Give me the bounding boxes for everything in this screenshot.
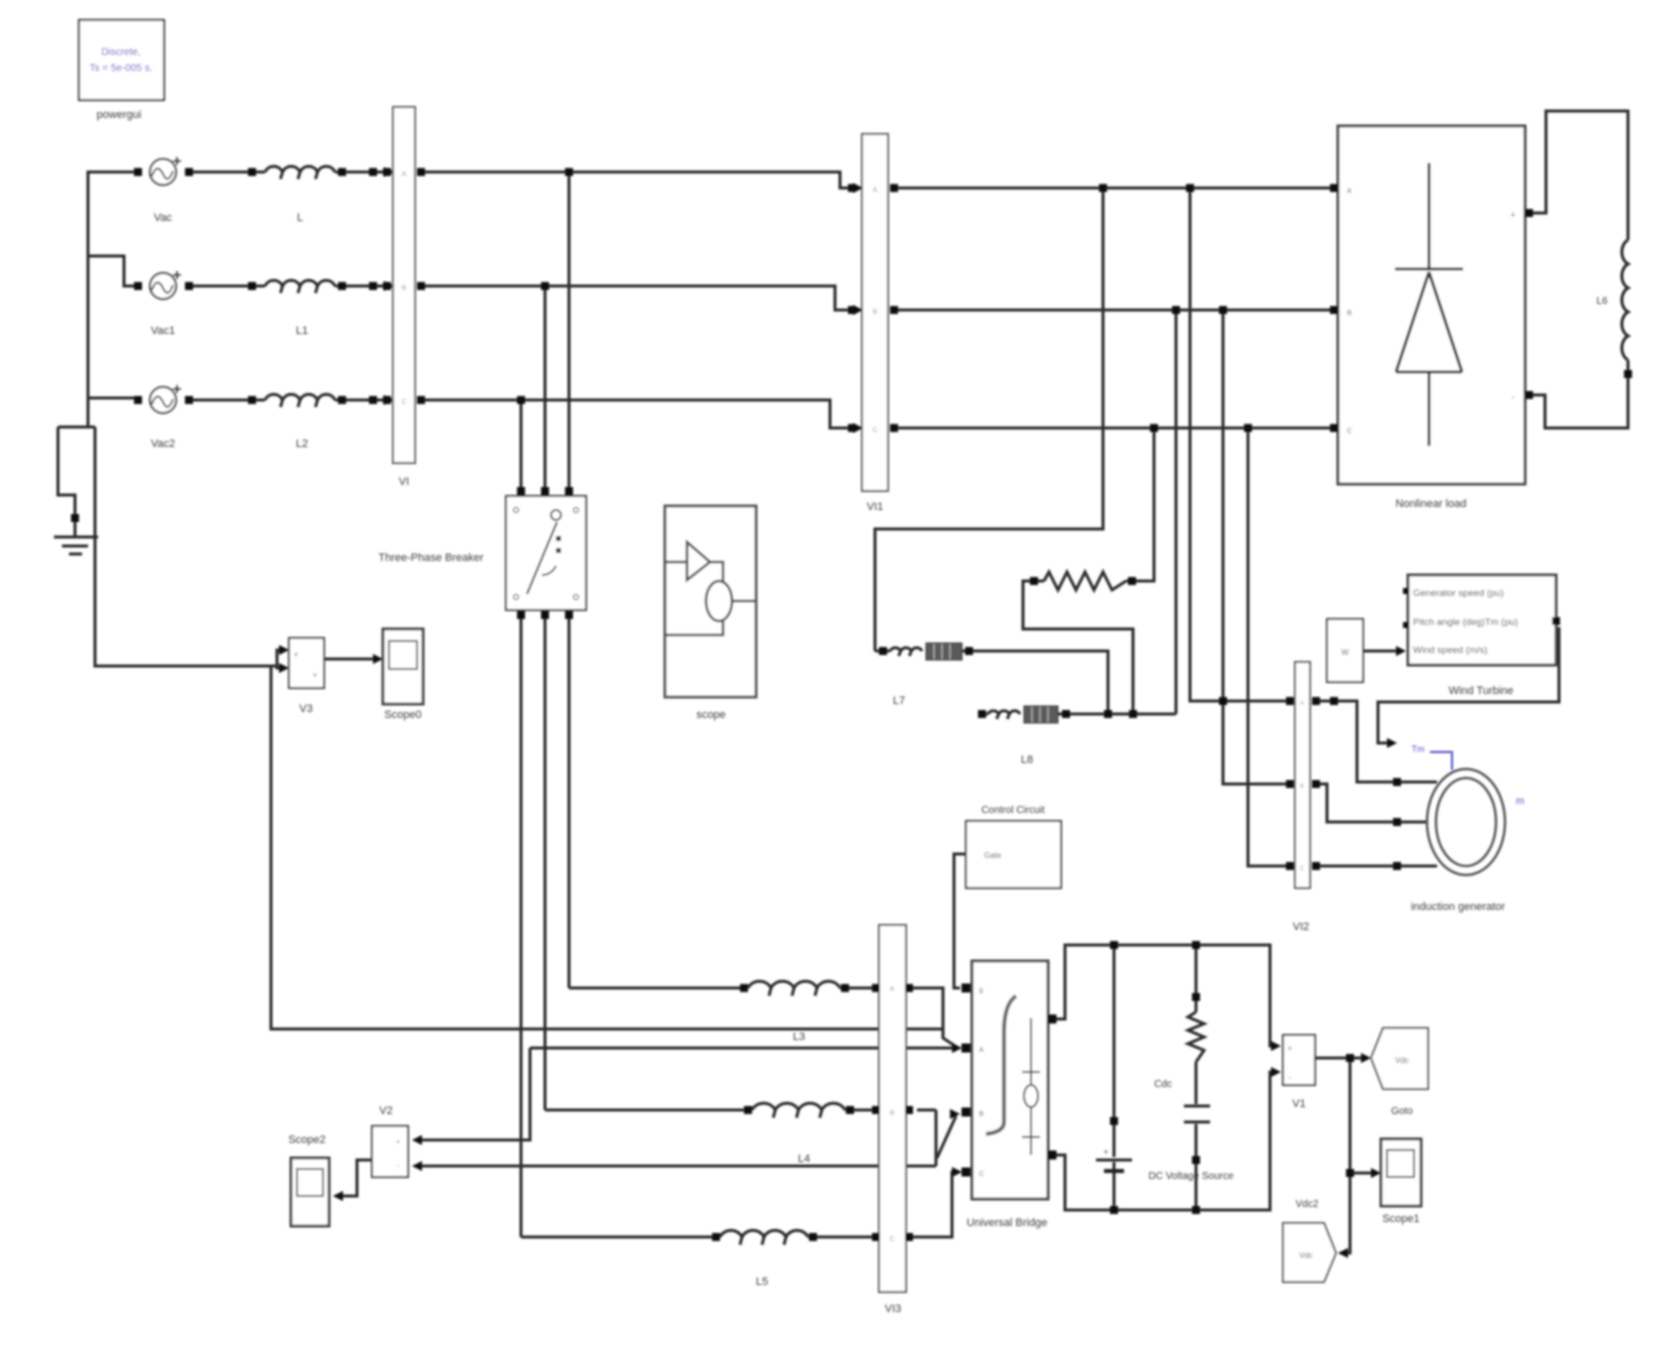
svg-text:W: W xyxy=(1341,648,1349,657)
svg-text:B: B xyxy=(979,1111,984,1118)
svg-text:Goto: Goto xyxy=(1391,1106,1413,1117)
svg-text:Generator speed (pu): Generator speed (pu) xyxy=(1413,588,1504,599)
svg-text:Control Circuit: Control Circuit xyxy=(981,805,1045,816)
svg-text:B: B xyxy=(1347,310,1352,317)
svg-text:+: + xyxy=(1510,210,1515,220)
svg-text:VI3: VI3 xyxy=(885,1303,902,1315)
svg-text:A: A xyxy=(979,1047,984,1054)
svg-text:+: + xyxy=(294,650,299,659)
svg-text:B: B xyxy=(890,1110,895,1117)
svg-text:powergui: powergui xyxy=(97,109,142,121)
svg-text:Pitch angle (deg)Tm (pu): Pitch angle (deg)Tm (pu) xyxy=(1413,617,1518,628)
svg-text:L2: L2 xyxy=(296,438,308,450)
svg-text:Vdc2: Vdc2 xyxy=(1296,1199,1319,1210)
svg-text:Ts = 5e-005 s.: Ts = 5e-005 s. xyxy=(89,63,152,74)
svg-text:Scope0: Scope0 xyxy=(384,709,421,721)
svg-text:A: A xyxy=(890,986,895,993)
svg-text:L1: L1 xyxy=(296,325,308,337)
svg-text:-: - xyxy=(1289,1073,1292,1082)
svg-text:Wind Turbine: Wind Turbine xyxy=(1449,685,1514,697)
svg-text:L8: L8 xyxy=(1021,754,1033,766)
svg-text:B: B xyxy=(873,309,878,316)
svg-text:C: C xyxy=(979,1171,984,1178)
svg-text:L: L xyxy=(297,212,303,224)
svg-text:+: + xyxy=(1103,1147,1108,1157)
svg-text:A: A xyxy=(1347,188,1352,195)
svg-text:L5: L5 xyxy=(756,1276,768,1288)
svg-text:A: A xyxy=(1300,701,1304,707)
svg-text:Nonlinear load: Nonlinear load xyxy=(1396,498,1467,510)
svg-text:Wind speed (m/s): Wind speed (m/s) xyxy=(1413,645,1487,656)
svg-text:v: v xyxy=(313,672,317,679)
svg-text:scope: scope xyxy=(696,709,725,721)
svg-text:+: + xyxy=(396,1139,400,1146)
svg-text:C: C xyxy=(401,399,406,406)
svg-text:A: A xyxy=(402,171,407,178)
svg-text:V3: V3 xyxy=(299,703,312,715)
svg-text:Tm: Tm xyxy=(1412,744,1425,754)
svg-text:Gate: Gate xyxy=(984,851,1002,860)
svg-text:C: C xyxy=(872,427,877,434)
svg-text:V2: V2 xyxy=(379,1105,392,1117)
svg-text:Discrete,: Discrete, xyxy=(101,47,140,58)
svg-text:Vdc: Vdc xyxy=(1299,1251,1313,1260)
svg-text:induction generator: induction generator xyxy=(1411,901,1506,913)
svg-text:VI1: VI1 xyxy=(867,501,884,513)
svg-text:+: + xyxy=(1288,1044,1293,1053)
svg-text:Three-Phase Breaker: Three-Phase Breaker xyxy=(378,552,483,564)
svg-text:Vac: Vac xyxy=(154,212,173,224)
svg-text:Vdc: Vdc xyxy=(1395,1056,1409,1065)
svg-text:Scope1: Scope1 xyxy=(1382,1213,1419,1225)
svg-text:C: C xyxy=(1300,866,1305,872)
svg-text:Cdc: Cdc xyxy=(1154,1079,1172,1090)
svg-text:L3: L3 xyxy=(793,1031,805,1043)
svg-text:B: B xyxy=(1300,784,1304,790)
svg-text:Vac2: Vac2 xyxy=(151,438,175,450)
svg-text:Universal Bridge: Universal Bridge xyxy=(967,1217,1048,1229)
svg-text:m: m xyxy=(1516,796,1524,807)
svg-text:DC Voltage Source: DC Voltage Source xyxy=(1148,1171,1233,1182)
svg-text:VI2: VI2 xyxy=(1293,921,1310,933)
svg-text:B: B xyxy=(402,285,407,292)
svg-text:-: - xyxy=(1512,392,1515,402)
svg-text:C: C xyxy=(1347,428,1352,435)
svg-text:L4: L4 xyxy=(798,1153,810,1165)
svg-text:Vac1: Vac1 xyxy=(151,325,175,337)
svg-text:L7: L7 xyxy=(893,695,905,707)
svg-text:VI: VI xyxy=(399,476,409,488)
svg-text:Scope2: Scope2 xyxy=(288,1134,325,1146)
svg-text:A: A xyxy=(873,187,878,194)
svg-text:V1: V1 xyxy=(1292,1098,1305,1110)
svg-text:L6: L6 xyxy=(1596,296,1608,307)
svg-text:g: g xyxy=(979,987,983,994)
svg-text:C: C xyxy=(889,1236,894,1243)
